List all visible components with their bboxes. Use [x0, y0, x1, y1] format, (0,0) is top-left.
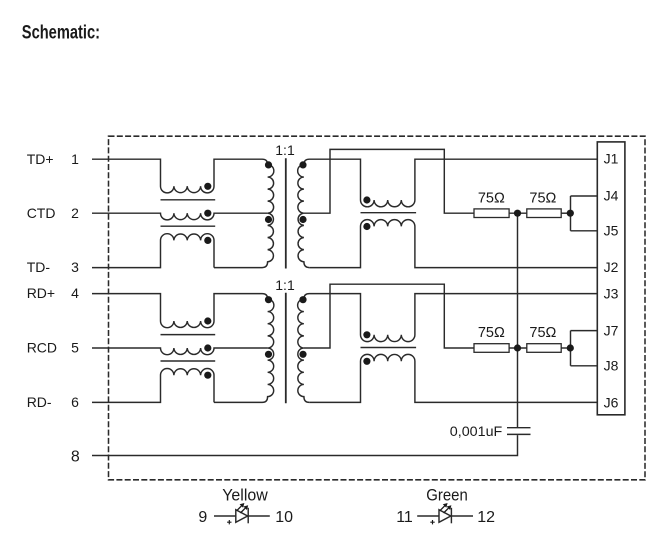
svg-text:J6: J6 [604, 394, 619, 410]
svg-text:5: 5 [71, 340, 79, 356]
svg-text:J7: J7 [604, 322, 619, 338]
svg-text:1: 1 [71, 151, 79, 167]
svg-text:RD-: RD- [27, 394, 52, 410]
svg-text:6: 6 [71, 394, 79, 410]
svg-text:8: 8 [71, 449, 80, 466]
svg-text:J1: J1 [604, 151, 619, 167]
svg-text:4: 4 [71, 285, 79, 301]
svg-text:RD+: RD+ [27, 285, 55, 301]
svg-text:12: 12 [477, 509, 495, 526]
svg-text:J8: J8 [604, 358, 619, 374]
svg-text:RCD: RCD [27, 340, 57, 356]
svg-text:11: 11 [396, 509, 413, 526]
svg-text:9: 9 [198, 509, 207, 526]
svg-text:J2: J2 [604, 259, 619, 275]
svg-text:CTD: CTD [27, 205, 56, 221]
svg-text:3: 3 [71, 259, 79, 275]
svg-text:1:1: 1:1 [275, 277, 295, 293]
svg-text:75Ω: 75Ω [529, 190, 556, 206]
svg-text:J3: J3 [604, 286, 619, 302]
svg-text:Green: Green [426, 486, 468, 504]
svg-text:1:1: 1:1 [275, 142, 295, 158]
svg-text:10: 10 [275, 509, 293, 526]
svg-text:Schematic:: Schematic: [22, 22, 100, 44]
svg-text:TD+: TD+ [27, 151, 54, 167]
svg-text:J5: J5 [604, 223, 619, 239]
svg-text:75Ω: 75Ω [478, 190, 505, 206]
svg-text:75Ω: 75Ω [478, 325, 505, 341]
svg-text:75Ω: 75Ω [529, 325, 556, 341]
svg-text:2: 2 [71, 205, 79, 221]
svg-text:Yellow: Yellow [222, 486, 268, 504]
svg-text:0,001uF: 0,001uF [450, 423, 503, 439]
svg-text:J4: J4 [604, 188, 619, 204]
svg-text:TD-: TD- [27, 259, 51, 275]
